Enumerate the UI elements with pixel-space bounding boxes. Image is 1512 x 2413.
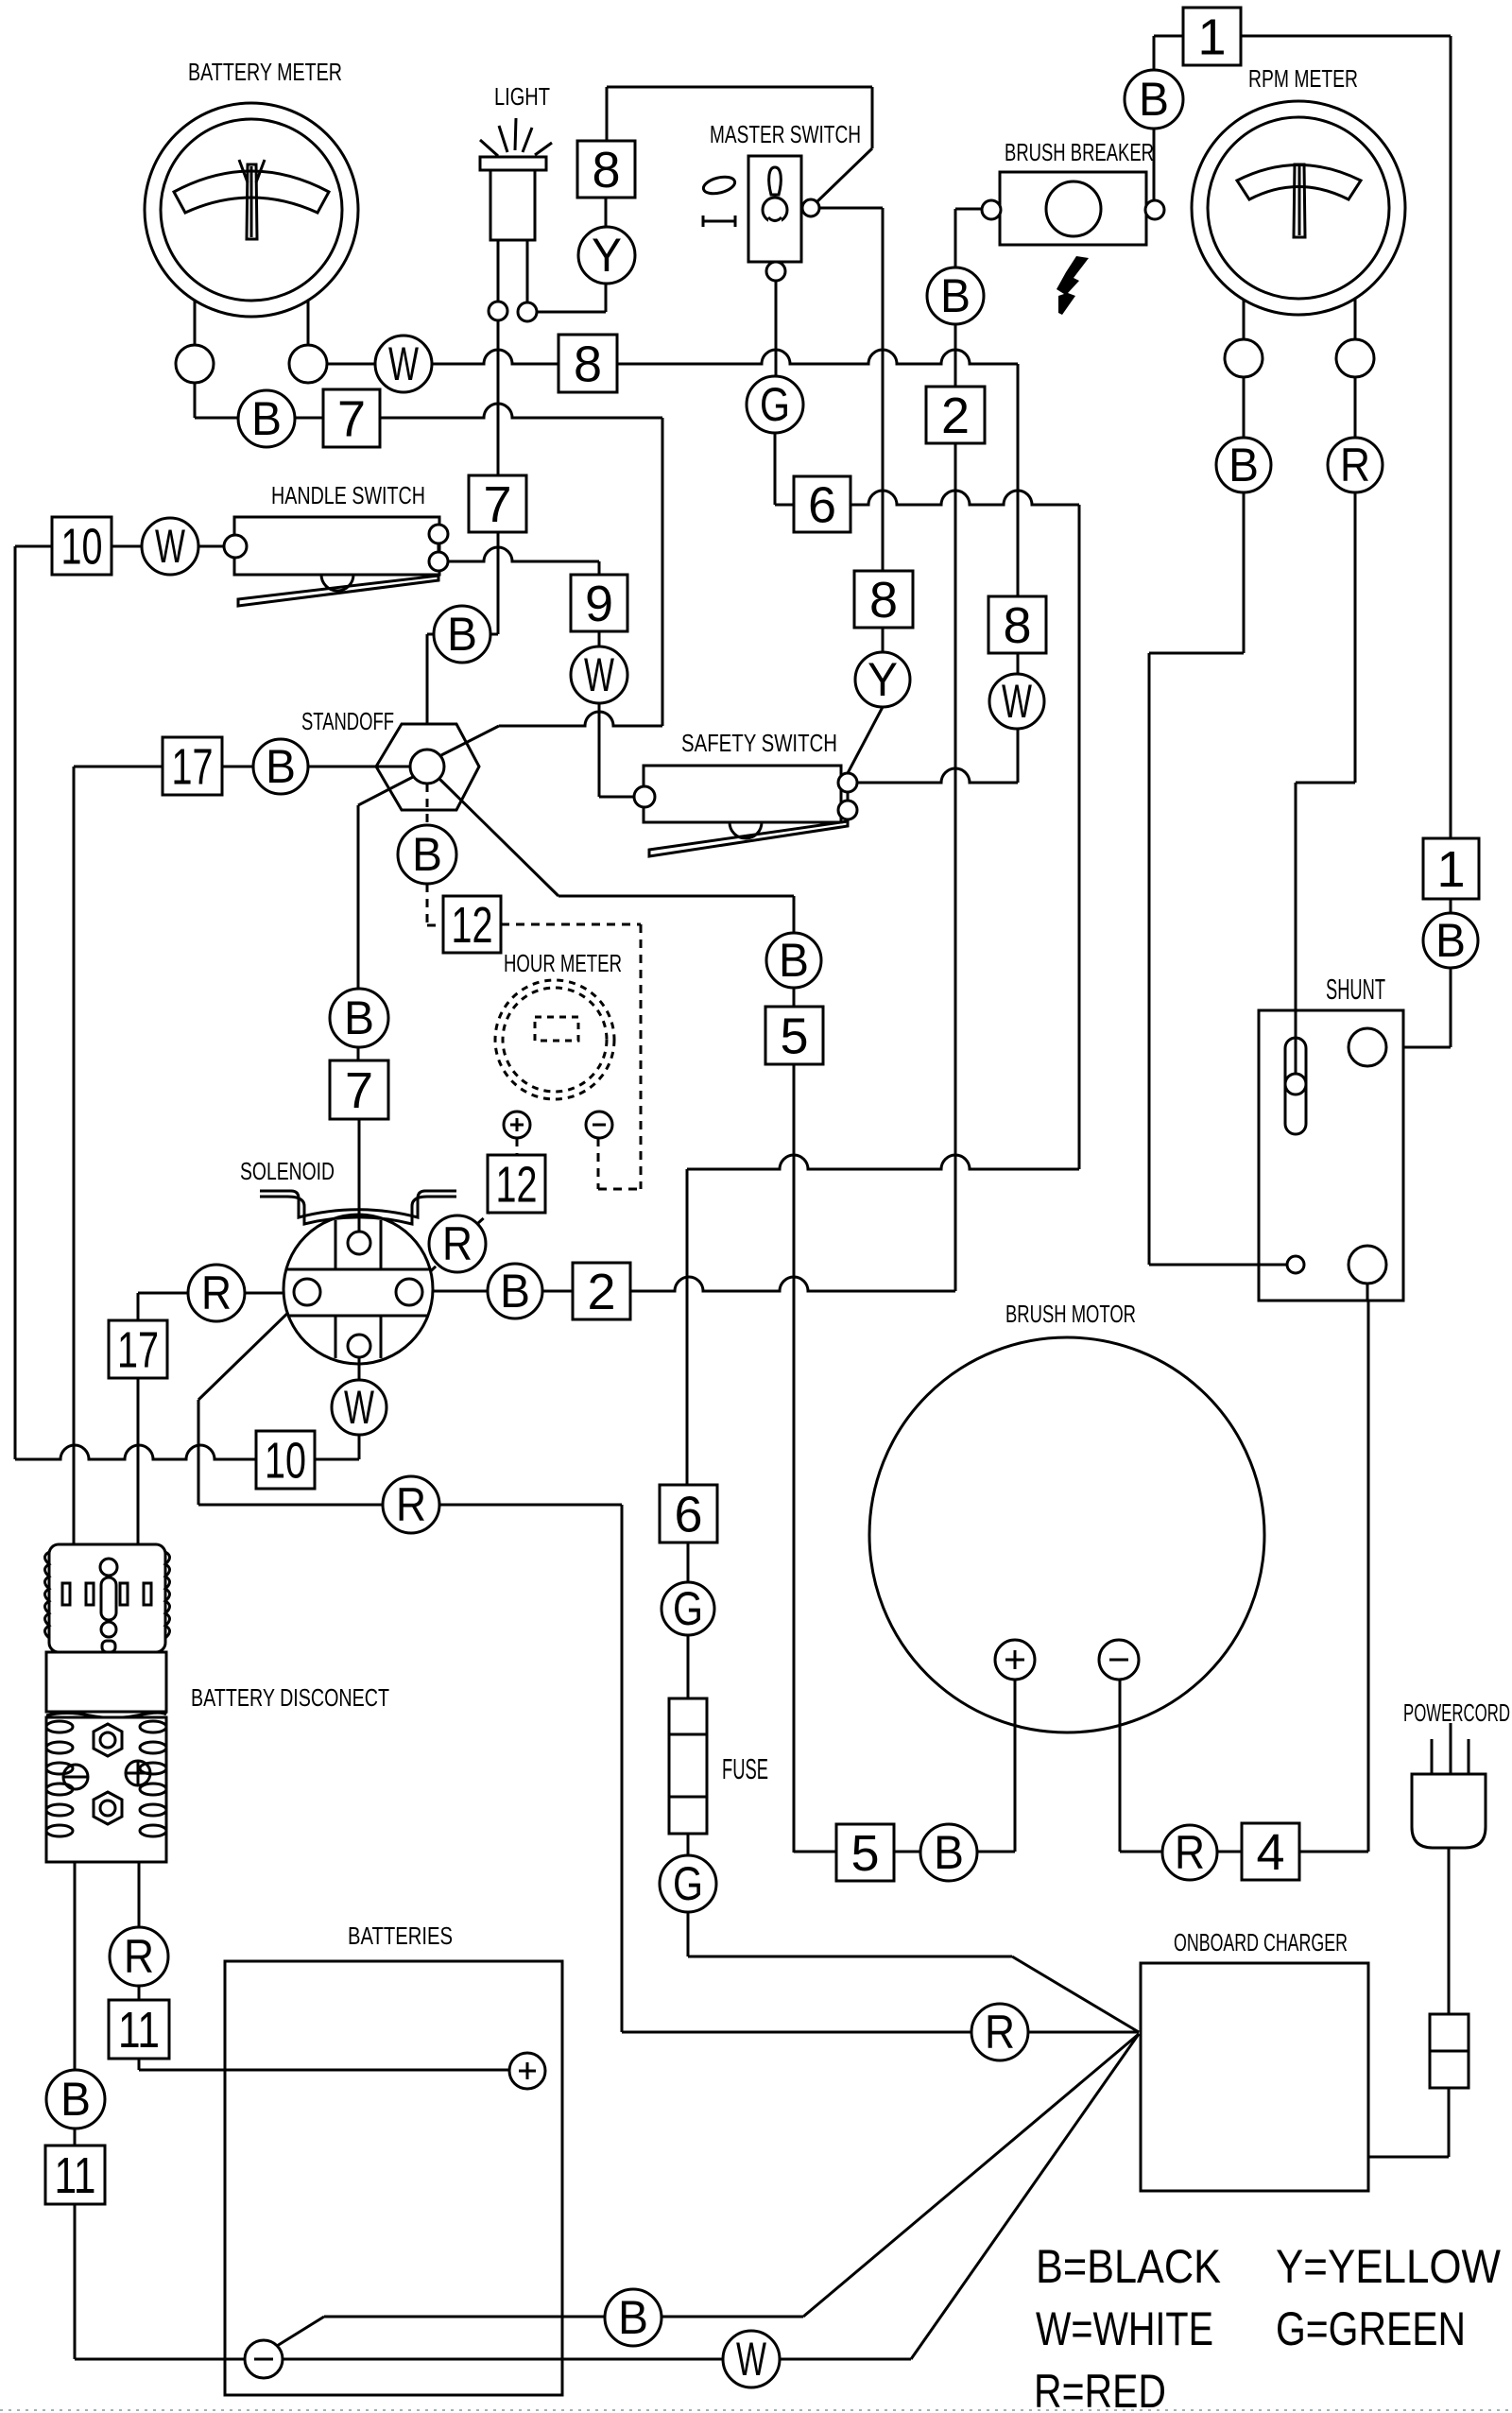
master switch position mark I: [703, 220, 735, 223]
svg-text:G: G: [673, 1857, 703, 1910]
wire number label 8 (8 mid): [854, 571, 913, 629]
wire color label B (disconnect B 11): [46, 2070, 105, 2129]
svg-text:1: 1: [1436, 841, 1465, 898]
powercord strain relief: [1430, 2014, 1469, 2088]
svg-text:RPM METER: RPM METER: [1248, 64, 1358, 93]
wire: RPM meter B terminal down, jog, to shunt small terminal: [1243, 293, 1246, 339]
master switch: [748, 156, 801, 262]
wire: standoff left 17-B line: [74, 766, 377, 768]
wire number label 7 (7 light): [469, 475, 526, 533]
svg-text:BRUSH BREAKER: BRUSH BREAKER: [1005, 138, 1154, 166]
solenoid: [283, 1215, 433, 1369]
svg-text:SHUNT: SHUNT: [1326, 973, 1385, 1006]
svg-text:1: 1: [1197, 9, 1226, 66]
wire number label 7 (7 battery meter): [323, 389, 380, 448]
wire: 6 box down through G, fuse, G to onboard charger: [687, 1543, 690, 1582]
wire number label 11 (11 batteries a): [109, 2000, 169, 2059]
svg-text:B=BLACK: B=BLACK: [1036, 2240, 1221, 2293]
wire: y768 line from standoff to x701: [499, 712, 662, 726]
shunt terminals: [1349, 1028, 1386, 1066]
wire: brush breaker right terminal up to B and 1 box: [1153, 36, 1156, 200]
svg-text:7: 7: [337, 391, 366, 448]
svg-text:SAFETY SWITCH: SAFETY SWITCH: [681, 729, 837, 757]
wire number label 7 (7 solenoid): [330, 1060, 388, 1119]
wire: 8c box to Y circle to safety switch upper right terminal: [882, 628, 885, 652]
wire color label R (charger R): [971, 2004, 1028, 2060]
battery meter scale band: [174, 171, 329, 213]
svg-text:POWERCORD: POWERCORD: [1403, 1698, 1510, 1727]
svg-text:7: 7: [483, 476, 511, 533]
wire number label 8 (8 right): [988, 596, 1046, 654]
wire number label 11 (11 batteries b): [45, 2146, 105, 2204]
svg-text:17: 17: [172, 739, 214, 796]
wire number label 17 (17 standoff): [163, 737, 222, 796]
svg-text:W: W: [155, 520, 186, 573]
solenoid mounting bracket: [260, 1191, 456, 1217]
svg-text:10: 10: [61, 519, 103, 576]
solenoid terminals: [348, 1232, 370, 1254]
handle switch lever: [238, 576, 438, 606]
wire number label 8 (8 light): [577, 141, 635, 198]
wire color label W (batteries W): [723, 2331, 780, 2387]
wire: handle switch 10-W line: [15, 545, 52, 548]
svg-text:HANDLE SWITCH: HANDLE SWITCH: [271, 481, 425, 509]
wire: 8d box to W to safety upper terminal line y828: [1017, 653, 1020, 674]
svg-text:8: 8: [574, 336, 602, 393]
svg-text:B: B: [251, 392, 282, 445]
svg-text:HOUR METER: HOUR METER: [504, 949, 622, 977]
wire color label B (battery meter B): [238, 390, 295, 447]
svg-text:11: 11: [55, 2147, 96, 2204]
wire: master switch bottom terminal down to G and 6 box: [775, 281, 778, 377]
svg-text:9: 9: [585, 576, 613, 632]
brush motor - terminal: [1099, 1640, 1139, 1680]
svg-text:17: 17: [117, 1322, 159, 1379]
wire: brush motor - to R-4 to shunt: [1119, 1680, 1122, 1852]
handle switch plunger: [321, 575, 353, 591]
wire: far-left vertical x16 down to y1544 junction line: [14, 546, 17, 1459]
wire: standoff diagonal down-left to solenoid 7 wire: [357, 805, 360, 989]
wire: flag diagonal to master switch right terminal: [816, 148, 872, 202]
wire color label B (standoff B 12): [398, 825, 456, 884]
svg-text:B: B: [344, 991, 374, 1044]
wire number label 2 (2 solenoid): [573, 1263, 630, 1320]
svg-text:R: R: [1175, 1826, 1205, 1879]
wire color label B (solenoid 2 B): [488, 1264, 542, 1319]
svg-text:LIGHT: LIGHT: [494, 82, 550, 111]
battery meter terminals: [176, 345, 214, 383]
wire color label R (rpm R): [1328, 438, 1383, 492]
safety switch terminals: [847, 792, 850, 801]
wire color label B (left 5 B): [766, 933, 821, 988]
svg-text:8: 8: [1003, 597, 1031, 654]
svg-text:7: 7: [345, 1062, 373, 1119]
svg-text:W=WHITE: W=WHITE: [1036, 2302, 1213, 2355]
wire number label 10 (10 handle): [52, 517, 112, 576]
wire: standoff diagonal to 5 wire down x840: [558, 895, 794, 898]
svg-text:8: 8: [869, 572, 898, 629]
svg-text:SOLENOID: SOLENOID: [240, 1157, 335, 1185]
wire color label W (safety W): [989, 674, 1044, 729]
svg-text:BATTERY METER: BATTERY METER: [188, 58, 342, 86]
svg-text:5: 5: [850, 1825, 879, 1882]
wire color label G (fuse G top): [661, 1582, 714, 1635]
wire: 10b box to W under solenoid: [315, 1458, 359, 1461]
wire color label B (solenoid 7 B): [330, 989, 388, 1047]
brush breaker terminals: [982, 200, 1001, 219]
svg-text:W: W: [344, 1381, 375, 1434]
wire color label W (handle 10 W): [142, 518, 198, 575]
wire: batteries - to W line to charger: [283, 2358, 723, 2361]
wire color label B (rpm B): [1216, 438, 1271, 492]
svg-text:R: R: [985, 2006, 1015, 2059]
wire color label B (standoff B 17): [253, 739, 308, 794]
wire: handle switch lower right terminal to 9 box, W, safety left terminal: [448, 547, 599, 561]
wire: light left lead down through 7 box to B: [497, 320, 500, 475]
wire: batteries - diagonal to B line to charger: [277, 2317, 324, 2346]
battery meter: [145, 103, 358, 317]
shunt: [1259, 1010, 1403, 1301]
wire color label W (solenoid 10 W): [332, 1380, 387, 1435]
svg-text:R: R: [1340, 439, 1370, 491]
svg-text:5: 5: [780, 1008, 808, 1065]
wire number label 6 (6 master): [794, 476, 850, 534]
wire number label 12 (12 hour meter a): [443, 896, 501, 954]
RPM meter: [1192, 101, 1405, 315]
wire (dashed): 12 box to R to solenoid right terminal: [477, 1214, 489, 1224]
svg-text:G=GREEN: G=GREEN: [1276, 2302, 1466, 2355]
wire color label G (fuse G bottom): [660, 1855, 716, 1912]
master switch position mark 0: [702, 174, 737, 197]
wire: battery meter left stub and B-7 line: [194, 301, 197, 345]
svg-text:Y=YELLOW: Y=YELLOW: [1276, 2240, 1502, 2293]
svg-text:Y: Y: [592, 229, 622, 282]
svg-text:ONBOARD CHARGER: ONBOARD CHARGER: [1174, 1928, 1348, 1956]
wire number label 1 (1 shunt): [1423, 838, 1479, 899]
onboard charger box: [1141, 1963, 1368, 2191]
svg-text:B: B: [60, 2073, 91, 2126]
wire color label R (motor R 4): [1162, 1825, 1217, 1880]
svg-text:B: B: [779, 934, 809, 987]
svg-text:FUSE: FUSE: [722, 1752, 768, 1785]
handle switch: [234, 517, 439, 606]
wire: solenoid right terminal B-2 line handled above; left R-17 line: [138, 1292, 294, 1295]
light terminals: [489, 302, 507, 320]
wire color label W (battery meter W): [375, 336, 432, 392]
page bottom edge dotted line: [0, 2409, 1512, 2411]
batteries - terminal: [245, 2340, 283, 2378]
batteries + terminal: [509, 2053, 545, 2089]
wire: light right terminal to Y circle: [537, 311, 606, 314]
wire number label 6 (6 fuse): [660, 1485, 717, 1543]
batteries box: [225, 1961, 562, 2395]
powercord plug: [1412, 1723, 1486, 1848]
svg-text:B: B: [1139, 73, 1169, 126]
brush motor: [869, 1337, 1264, 1732]
svg-text:R=RED: R=RED: [1034, 2365, 1166, 2413]
svg-text:R: R: [396, 1478, 426, 1531]
wire color label R (solenoid R): [383, 1476, 439, 1533]
RPM meter scale band: [1237, 165, 1361, 200]
svg-text:W: W: [388, 337, 420, 390]
wire number label 2 (2 breaker): [926, 387, 985, 444]
svg-text:G: G: [760, 378, 790, 431]
hour meter minus terminal: [586, 1112, 612, 1138]
svg-text:2: 2: [941, 388, 970, 444]
svg-text:B: B: [500, 1265, 530, 1318]
wire number label 5 (5 motor): [836, 1824, 894, 1882]
svg-text:BATTERY DISCONECT: BATTERY DISCONECT: [191, 1683, 389, 1712]
safety switch lever: [649, 821, 848, 856]
svg-text:W: W: [736, 2333, 767, 2386]
hour meter plus terminal: [504, 1112, 530, 1138]
standoff hexagon: [358, 724, 558, 896]
brush breaker: [1000, 172, 1146, 245]
wire number label 5 (5 left): [765, 1007, 823, 1065]
wire: battery meter right stub and W-8 line: [307, 301, 310, 345]
svg-text:10: 10: [265, 1433, 306, 1490]
light rays: [480, 140, 498, 156]
svg-text:G: G: [673, 1582, 703, 1635]
svg-text:R: R: [201, 1267, 232, 1319]
lightning bolt: [1057, 256, 1089, 315]
svg-text:B: B: [266, 740, 296, 793]
wire color label Y (safety Y): [855, 652, 910, 707]
svg-text:MASTER SWITCH: MASTER SWITCH: [710, 120, 861, 148]
wire color label G (master switch G): [747, 376, 803, 433]
wire number label 17 (17 disconnect): [109, 1320, 167, 1379]
fuse: [669, 1698, 707, 1834]
svg-text:B: B: [618, 2291, 648, 2344]
wire color label B (handle B 7): [434, 606, 490, 663]
wire: R wire to onboard charger: [622, 2031, 1139, 2034]
wire color label Y (light Y): [578, 227, 635, 284]
wire: powercord cord: [1448, 1848, 1451, 2014]
wire number label 1 (1 top): [1183, 8, 1241, 66]
wire color label W (handle 9 W): [571, 646, 627, 703]
wire: 1 box right to x1535 down to shunt top right: [1241, 35, 1451, 38]
wire number label 8 (8 battery meter): [558, 335, 617, 393]
svg-text:B: B: [934, 1826, 964, 1879]
svg-text:R: R: [124, 1930, 154, 1983]
RPM meter needle: [1294, 164, 1305, 237]
svg-text:B: B: [412, 828, 442, 881]
svg-text:B: B: [940, 269, 971, 322]
svg-text:B: B: [1435, 914, 1466, 967]
master switch toggle lever: [769, 167, 782, 195]
wire (dashed): standoff to B-12 to hour meter minus: [426, 884, 429, 925]
svg-text:4: 4: [1256, 1824, 1284, 1881]
wire: solenoid left diagonal down to R wire: [198, 1302, 299, 1400]
svg-text:2: 2: [587, 1264, 615, 1320]
svg-text:12: 12: [452, 897, 493, 954]
wire: master switch right terminal to vertical x934: [818, 207, 883, 210]
RPM meter terminals: [1225, 339, 1263, 377]
wire: light leads: [497, 240, 500, 302]
wire number label 10 (10 solenoid): [256, 1431, 315, 1490]
wire: brush breaker left terminal to x1011 (wire 2) down to solenoid: [955, 208, 983, 211]
wire: RPM meter R terminal down, jog, into shunt slot: [1354, 295, 1357, 339]
wire color label B (breaker B): [927, 267, 984, 324]
svg-text:Y: Y: [868, 653, 898, 706]
svg-text:8: 8: [592, 142, 620, 198]
svg-text:STANDOFF: STANDOFF: [301, 707, 394, 735]
svg-text:B: B: [1228, 439, 1259, 491]
svg-text:6: 6: [808, 477, 836, 534]
svg-text:BATTERIES: BATTERIES: [348, 1922, 453, 1950]
wire color label B (batteries B): [605, 2289, 661, 2346]
wire number label 12 (12 hour meter b): [488, 1155, 545, 1214]
wire color label R (solenoid 17 R): [188, 1265, 245, 1321]
wire color label B (top B): [1125, 70, 1183, 129]
svg-text:W: W: [1002, 675, 1033, 728]
wire number label 4 (4 charger): [1242, 1823, 1299, 1881]
battery meter needle: [247, 164, 257, 239]
svg-text:W: W: [584, 648, 615, 701]
battery disconnect connector: [45, 1544, 170, 1862]
hour meter (dashed): [495, 980, 614, 1099]
wire color label R (disconnect R 11): [110, 1927, 168, 1986]
safety switch: [644, 766, 848, 856]
svg-text:12: 12: [496, 1157, 538, 1214]
svg-text:11: 11: [118, 2002, 160, 2059]
wire: 6 box line y534 right, down x1142, left y1237 to 6-wire: [850, 491, 1079, 505]
wire: battery disconnect to R-11 to batteries +: [138, 1862, 141, 1927]
safety switch plunger: [730, 822, 762, 838]
wire: standoff to B and 7 box (handle circuit): [427, 633, 434, 636]
wire color label B (motor B 5): [920, 1824, 977, 1881]
wire: 5-B bottom line to brush motor +: [794, 1851, 1015, 1853]
svg-text:6: 6: [674, 1487, 702, 1543]
light: [480, 118, 552, 240]
brush motor + terminal: [995, 1640, 1035, 1680]
wire number label 9 (9 handle): [571, 575, 627, 632]
svg-text:B: B: [447, 608, 477, 661]
svg-text:BRUSH MOTOR: BRUSH MOTOR: [1005, 1300, 1136, 1328]
wire: top line from light 8-box to master switch flag: [607, 86, 872, 89]
wire color label B (shunt 1 B): [1423, 913, 1478, 968]
svg-text:R: R: [442, 1217, 472, 1270]
master switch terminals: [802, 199, 819, 216]
wire: battery disconnect left pin to B-11 to batteries -: [74, 1862, 77, 2070]
wire (dashed): hour meter plus to 12 box: [516, 1138, 519, 1155]
handle switch terminals: [438, 543, 440, 552]
wire color label R (solenoid 12 R): [429, 1215, 486, 1272]
